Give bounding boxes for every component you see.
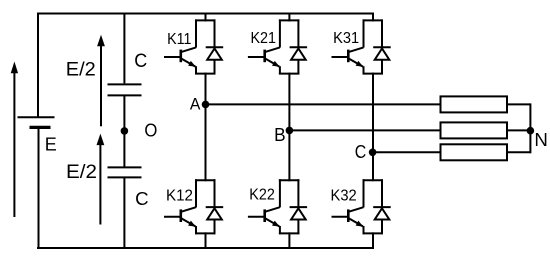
node O junction dot (DC-link midpoint) — [121, 127, 129, 135]
wire: K31 cell top tie — [363, 19, 384, 21]
wire: C2 to bottom bus — [123, 177, 125, 249]
label K32 — [331, 188, 357, 205]
label A (phase node) — [190, 94, 201, 113]
label E/2 (lower half voltage) — [66, 162, 97, 183]
svg-text:N: N — [534, 130, 548, 150]
wire: K22 cell top tie — [279, 179, 300, 181]
antiparallel diode of K31 — [373, 19, 391, 74]
capacitor C2 (lower DC-link cap) — [108, 167, 142, 177]
antiparallel diode of K11 — [206, 19, 224, 74]
wire: top bus to capacitor C1 — [123, 14, 125, 84]
wire: K31 cell bottom tie — [363, 73, 384, 75]
wire: phase A to load resistor 1 — [206, 103, 442, 105]
wire: left rail upper (battery + to top bus) — [37, 13, 39, 118]
wire: phase B to load resistor 2 — [289, 129, 441, 131]
label C (upper capacitor) — [134, 51, 147, 72]
arrow: voltage E direction (up) — [11, 62, 18, 218]
capacitor C1 (upper DC-link cap) — [108, 84, 142, 95]
transistor K32 (IGBT) — [332, 179, 364, 234]
antiparallel diode of K21 — [290, 19, 308, 74]
node N junction dot (load neutral) — [527, 127, 535, 135]
transistor K22 (IGBT) — [248, 179, 280, 234]
arrow: voltage E/2 across C1 (up) — [97, 35, 105, 127]
node B junction dot — [286, 127, 294, 135]
wire: leg 1 midpoint (phase output) — [205, 73, 207, 182]
label K21 — [251, 30, 277, 47]
wire: phase C to load resistor 3 — [373, 151, 441, 153]
svg-text:K32: K32 — [331, 188, 357, 205]
transistor K31 (IGBT) — [332, 19, 364, 74]
wire: leg 3 midpoint (phase output) — [372, 73, 374, 182]
wire: leg 2 bottom bus stub — [288, 232, 290, 249]
wire: left rail lower (battery - to bottom bus) — [38, 128, 40, 250]
label O (midpoint node) — [144, 120, 157, 140]
wire: top DC bus rail — [37, 13, 374, 15]
label K22 — [249, 186, 275, 203]
svg-text:O: O — [144, 120, 157, 140]
svg-text:K11: K11 — [167, 31, 191, 48]
wire: K32 cell bottom tie — [363, 232, 384, 234]
wire: K32 cell top tie — [363, 179, 384, 181]
svg-text:E/2: E/2 — [66, 162, 97, 183]
wire: leg 1 top bus stub — [205, 13, 207, 22]
label K11 — [167, 31, 191, 48]
svg-text:K21: K21 — [251, 30, 277, 47]
label B (phase node) — [274, 125, 286, 145]
label C (phase node) — [355, 142, 367, 162]
wire: resistor 1 to neutral rail — [507, 103, 530, 105]
wire: bottom DC bus rail — [37, 247, 374, 249]
arrow: voltage E/2 across C2 (up) — [97, 134, 105, 225]
svg-text:C: C — [355, 142, 367, 162]
wire: leg 1 bottom bus stub — [205, 232, 207, 249]
antiparallel diode of K22 — [290, 179, 308, 234]
wire: K12 cell bottom tie — [195, 232, 216, 234]
svg-text:B: B — [274, 125, 286, 145]
wire: neutral vertical rail — [529, 103, 531, 153]
svg-text:K22: K22 — [249, 186, 275, 203]
label K12 — [166, 188, 193, 205]
wire: C1 to C2 through midpoint O — [123, 95, 125, 167]
wire: resistor 3 to neutral rail — [507, 151, 530, 153]
wire: K21 cell bottom tie — [279, 73, 300, 75]
label C (lower capacitor) — [135, 188, 149, 209]
label E/2 (upper half voltage) — [66, 60, 96, 81]
wire: leg 2 top bus stub — [288, 13, 290, 22]
wire: K11 cell top tie — [195, 19, 216, 21]
label K31 — [333, 30, 359, 47]
svg-text:C: C — [134, 51, 147, 72]
wire: leg 3 top bus stub — [372, 13, 374, 22]
label E (battery value) — [45, 135, 57, 155]
node C junction dot — [369, 149, 377, 157]
battery E positive plate (long) — [18, 116, 55, 118]
wire: K12 cell top tie — [195, 179, 216, 181]
wire: resistor 2 to node N — [507, 129, 530, 131]
transistor K21 (IGBT) — [248, 19, 280, 74]
wire: leg 2 midpoint (phase output) — [288, 73, 290, 182]
load resistor phase B — [441, 122, 508, 138]
load resistor phase A — [441, 96, 508, 112]
wire: K21 cell top tie — [279, 19, 300, 21]
antiparallel diode of K12 — [206, 179, 224, 234]
svg-text:C: C — [135, 188, 149, 209]
wire: K22 cell bottom tie — [279, 232, 300, 234]
wire: K11 cell bottom tie — [195, 73, 216, 75]
label N (neutral node) — [534, 130, 548, 150]
svg-text:K31: K31 — [333, 30, 359, 47]
svg-text:E: E — [45, 135, 57, 155]
wire: leg 3 bottom bus stub — [372, 232, 374, 249]
load resistor phase C — [441, 144, 508, 160]
antiparallel diode of K32 — [373, 179, 391, 234]
svg-text:A: A — [190, 94, 201, 113]
battery E negative plate (short, thick) — [30, 126, 51, 129]
transistor K12 (IGBT) — [164, 179, 196, 234]
svg-text:K12: K12 — [166, 188, 193, 205]
node A junction dot — [202, 101, 210, 109]
svg-text:E/2: E/2 — [66, 60, 96, 81]
transistor K11 (IGBT) — [164, 19, 196, 74]
